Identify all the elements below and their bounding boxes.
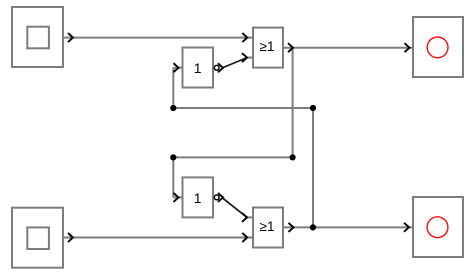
inverter N1	[183, 48, 214, 88]
arrow U1 input B	[242, 53, 247, 62]
arrow lamp H2 input	[404, 223, 409, 232]
arrow U2 output	[289, 223, 294, 232]
wire stub into U1 input B	[245, 57, 253, 59]
wire N1 output diagonal to U1 input B	[222, 58, 247, 68]
wire Q horizontal to left	[173, 156, 292, 158]
wire stub into U2 input A	[245, 216, 253, 218]
arrow S1 pin	[68, 33, 73, 42]
arrow U2 input B	[242, 233, 247, 242]
arrow U1 input A	[242, 33, 247, 42]
wire NQ up from lower rail	[172, 68, 174, 108]
lamp H2	[413, 197, 463, 257]
OR gate U2	[253, 208, 283, 248]
svg-text:≥1: ≥1	[260, 219, 275, 234]
inverter N2 output bubble	[214, 195, 219, 200]
inverter N2	[183, 177, 214, 217]
wire U2 output to lamp H2	[283, 226, 413, 228]
wire into N1 input	[173, 67, 182, 69]
arrow N1 input	[174, 63, 179, 72]
junction NQ left	[170, 105, 176, 111]
switch S2	[12, 208, 63, 268]
svg-text:1: 1	[194, 60, 202, 76]
wire into N2 input	[173, 196, 182, 198]
svg-text:1: 1	[194, 190, 202, 206]
lamp H1	[413, 17, 463, 77]
wire U1 output to lamp H1	[283, 47, 413, 49]
wire Q down to N2 input	[172, 157, 174, 197]
junction Q right	[290, 154, 296, 160]
wire NQ horizontal rail	[173, 107, 313, 109]
wire S1 output to U1 input A	[63, 37, 253, 39]
arrow S2 pin	[68, 233, 73, 242]
arrow lamp H1 input	[405, 43, 410, 52]
svg-text:≥1: ≥1	[260, 39, 275, 54]
arrow N1 output	[218, 63, 223, 72]
wire NQ vertical rail	[312, 108, 314, 227]
arrow N2 output	[218, 193, 223, 202]
wire N2 output diagonal to U2 input A	[222, 198, 247, 218]
wire S2 output to U2 input B	[63, 237, 253, 239]
inverter N1 output bubble	[214, 65, 219, 70]
arrow N2 input	[174, 193, 179, 202]
switch S1	[12, 7, 63, 67]
junction NQ right	[310, 105, 316, 111]
arrow U1 output	[288, 43, 293, 52]
wire Q branch down	[292, 48, 294, 158]
junction Q left	[170, 154, 176, 160]
junction NQ bottom	[310, 224, 316, 230]
arrow U2 input A	[242, 213, 247, 222]
OR gate U1	[253, 28, 283, 68]
